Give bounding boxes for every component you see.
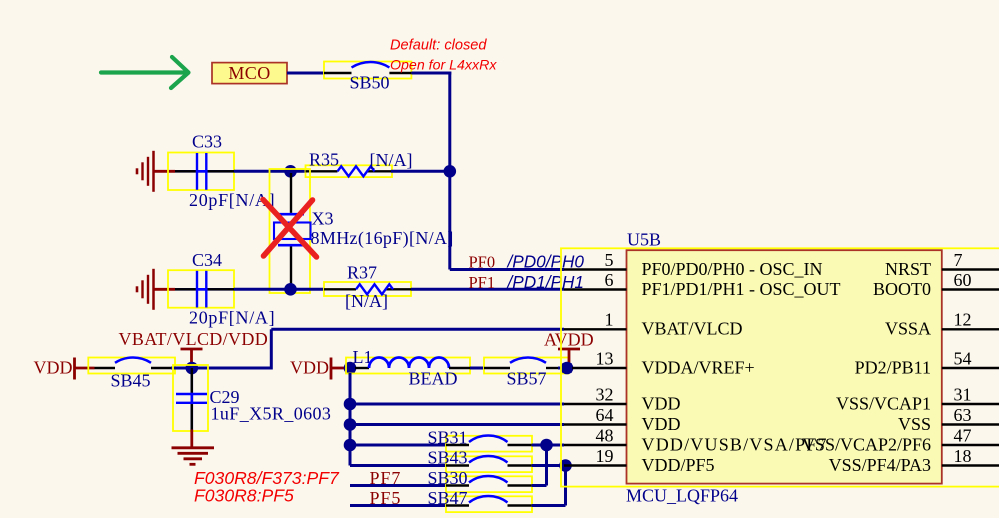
svg-text:VSS/PF4/PA3: VSS/PF4/PA3: [829, 455, 931, 475]
svg-text:Open for L4xxRx: Open for L4xxRx: [390, 58, 497, 74]
svg-text:VSSA: VSSA: [885, 319, 931, 339]
wire PF5 row: [350, 504, 446, 507]
green arrow annotation: [101, 57, 189, 88]
wire to MCU pin 64: [350, 423, 564, 426]
junction pin48 node: [540, 439, 553, 452]
pin 54 stub: [942, 367, 999, 369]
svg-text:64: 64: [596, 405, 614, 425]
svg-text:1: 1: [605, 310, 614, 330]
svg-text:47: 47: [954, 425, 972, 445]
capacitor C29: [173, 365, 208, 431]
junction VDD bus row32: [344, 398, 357, 411]
wire corner to MCU pin 5: [450, 268, 564, 271]
svg-text:12: 12: [954, 310, 972, 330]
pin 48 stub: [564, 444, 627, 446]
svg-text:VSS: VSS: [898, 414, 931, 434]
wire riser to pin 1 row: [270, 329, 273, 369]
wire SB57 to AVDD node: [558, 367, 562, 370]
svg-text:PF0: PF0: [469, 253, 496, 272]
svg-text:63: 63: [954, 405, 972, 425]
wire VDD bus riser: [349, 373, 352, 466]
pin 18 stub: [942, 464, 999, 466]
wire SB43 to pin19 node: [532, 464, 564, 467]
solder bridge SB45: [88, 358, 175, 374]
wire SB45 to junction: [171, 367, 192, 370]
svg-text:6: 6: [605, 270, 614, 290]
resistor R35: [306, 165, 393, 177]
svg-text:R37: R37: [347, 262, 377, 282]
svg-text:SB47: SB47: [427, 488, 467, 508]
junction OSC_IN/R35: [444, 165, 457, 178]
wire SB30 up to pin48 node: [532, 484, 547, 487]
svg-text:R35: R35: [309, 149, 339, 169]
wire to MCU pin 1: [271, 328, 564, 331]
svg-text:MCO: MCO: [228, 63, 270, 83]
svg-text:PF0/PD0/PH0 - OSC_IN: PF0/PD0/PH0 - OSC_IN: [642, 259, 823, 279]
port MCO: [212, 63, 287, 84]
wire ground stem C34: [154, 288, 176, 291]
wire bus to SB31: [350, 444, 446, 447]
selection box of U5B: [561, 248, 999, 486]
svg-text:13: 13: [596, 348, 614, 368]
svg-text:NRST: NRST: [885, 259, 931, 279]
svg-text:C34: C34: [192, 250, 222, 270]
wire to MCU pin 32: [350, 403, 564, 406]
svg-text:48: 48: [596, 425, 614, 445]
svg-text:U5B: U5B: [627, 230, 661, 250]
svg-text:[N/A]: [N/A]: [345, 291, 388, 311]
wire VDD to SB45: [75, 367, 95, 370]
solder bridge SB31: [446, 436, 532, 452]
svg-text:5: 5: [605, 250, 614, 270]
svg-text:VSS/VCAP2/PF6: VSS/VCAP2/PF6: [802, 434, 931, 454]
svg-text:C33: C33: [192, 132, 222, 152]
junction C34/X3/R37: [284, 283, 297, 296]
svg-text:8MHz(16pF)[N/A]: 8MHz(16pF)[N/A]: [311, 228, 454, 249]
svg-text:20pF[N/A]: 20pF[N/A]: [189, 308, 275, 328]
junction square AVDD/pin13: [561, 362, 574, 375]
wire SB47 up to pin19 node: [532, 504, 566, 507]
pin 31 stub: [942, 403, 999, 405]
svg-text:VDD: VDD: [34, 358, 73, 378]
svg-text:VDD/VUSB/VSA/PF7: VDD/VUSB/VSA/PF7: [642, 434, 828, 454]
pin 32 stub: [564, 403, 627, 405]
svg-text:7: 7: [954, 250, 963, 270]
svg-text:SB31: SB31: [427, 427, 467, 447]
wire L1 to SB57: [470, 367, 484, 370]
svg-text:SB57: SB57: [507, 368, 547, 388]
wire VDD to L1 node: [331, 367, 346, 370]
svg-text:X3: X3: [312, 209, 334, 229]
pin 12 stub: [942, 328, 999, 330]
svg-text:Default: closed: Default: closed: [390, 37, 487, 53]
svg-text:AVDD: AVDD: [544, 329, 594, 349]
wire R35 to junction: [391, 170, 450, 173]
pin 60 stub: [942, 288, 999, 290]
svg-text:VDD/PF5: VDD/PF5: [642, 455, 715, 475]
junction C33/X3/R35: [284, 165, 297, 178]
ground for C34: [152, 269, 155, 310]
junction VBAT node: [186, 362, 199, 375]
svg-text:[N/A]: [N/A]: [370, 150, 413, 170]
capacitor C34: [168, 270, 234, 308]
wire C33 to junction: [234, 170, 306, 173]
resistor R37: [324, 282, 411, 296]
svg-text:19: 19: [596, 446, 614, 466]
solder bridge SB30: [446, 476, 532, 492]
svg-text:32: 32: [596, 384, 614, 404]
svg-text:VDD: VDD: [642, 414, 681, 434]
pin 7 stub: [942, 268, 999, 270]
capacitor C33: [168, 153, 234, 191]
wire vertical OSC_IN net: [448, 72, 451, 270]
svg-text:F030R8:PF5: F030R8:PF5: [194, 486, 294, 506]
svg-text:VSS/VCAP1: VSS/VCAP1: [836, 393, 931, 413]
pin 19 stub: [564, 464, 627, 466]
junction VDD bus row48: [344, 439, 357, 452]
wire PF7 row: [350, 484, 446, 487]
wire SB31 to pin48 node: [532, 444, 564, 447]
svg-text:PD2/PB11: PD2/PB11: [855, 357, 931, 377]
svg-text:VDDA/VREF+: VDDA/VREF+: [642, 357, 755, 377]
svg-text:BOOT0: BOOT0: [873, 279, 931, 299]
svg-text:SB45: SB45: [111, 370, 151, 390]
svg-text:PF1/PD1/PH1 - OSC_OUT: PF1/PD1/PH1 - OSC_OUT: [642, 279, 841, 299]
solder bridge SB47: [446, 496, 532, 512]
not-fitted cross on X3: [263, 200, 317, 258]
pin 47 stub: [942, 444, 999, 446]
svg-text:SB43: SB43: [427, 448, 467, 468]
svg-text:SB30: SB30: [427, 468, 467, 488]
svg-text:VBAT/VLCD/VDD: VBAT/VLCD/VDD: [119, 329, 269, 349]
crystal X3: [270, 169, 311, 293]
svg-text:1uF_X5R_0603: 1uF_X5R_0603: [211, 404, 332, 424]
svg-text:PF1: PF1: [469, 273, 496, 292]
solder bridge SB57: [484, 358, 569, 374]
junction VDD bus row64: [344, 418, 357, 431]
ground for C33: [152, 151, 155, 192]
wire bus corner to SB43: [350, 464, 446, 467]
ferrite bead L1: [346, 358, 470, 374]
wire C34 to junction: [234, 288, 324, 291]
earth ground C29: [172, 446, 215, 449]
wire SB50 to corner: [411, 72, 451, 75]
svg-text:54: 54: [954, 348, 972, 368]
pin 64 stub: [564, 423, 627, 425]
svg-text:SB50: SB50: [350, 72, 390, 92]
wire MCO to SB50: [287, 72, 324, 75]
svg-text:BEAD: BEAD: [409, 368, 458, 388]
wire ground stem C33: [154, 170, 176, 173]
pin 63 stub: [942, 423, 999, 425]
pin 5 stub: [564, 268, 627, 270]
solder bridge SB50: [324, 62, 411, 79]
MCU U5B body: [627, 250, 942, 483]
svg-text:18: 18: [954, 446, 972, 466]
svg-text:31: 31: [954, 384, 972, 404]
solder bridge SB43: [446, 456, 532, 472]
svg-text:MCU_LQFP64: MCU_LQFP64: [626, 486, 738, 506]
pin 1 stub: [564, 328, 627, 330]
junction square VDD/L1: [344, 362, 357, 375]
svg-text:VDD: VDD: [642, 393, 681, 413]
wire C29 to ground: [190, 430, 193, 447]
svg-text:VDD: VDD: [290, 358, 329, 378]
wire R37 to MCU pin 6: [411, 288, 564, 291]
wire VBAT node to riser: [192, 367, 271, 370]
junction pin19 node: [559, 459, 572, 472]
pin 13 stub: [572, 367, 627, 369]
svg-text:VBAT/VLCD: VBAT/VLCD: [642, 319, 743, 339]
svg-text:60: 60: [954, 270, 972, 290]
pin 6 stub: [564, 288, 627, 290]
